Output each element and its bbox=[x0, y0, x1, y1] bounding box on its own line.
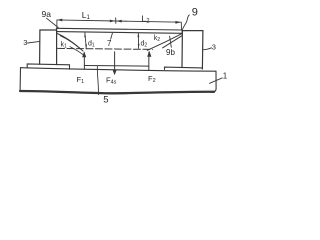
leader 9a bbox=[47, 18, 59, 27]
dimension arrow L1 right bbox=[110, 20, 115, 23]
force arrow F4s (centre, downward) bbox=[113, 52, 117, 75]
beam 7 dashed centre line bbox=[58, 48, 153, 49]
svg-text:F2: F2 bbox=[148, 74, 156, 84]
svg-text:7: 7 bbox=[107, 39, 112, 48]
svg-text:1: 1 bbox=[223, 72, 228, 81]
right foot plate bbox=[165, 67, 203, 69]
load pad top edge between F1 and F2 bbox=[84, 65, 148, 68]
beam kink k1 diagonal a bbox=[56, 33, 80, 49]
svg-text:5: 5 bbox=[103, 95, 108, 106]
svg-text:3: 3 bbox=[23, 38, 27, 47]
beam kink k1 diagonal c bbox=[70, 47, 84, 55]
leader 3 left bbox=[28, 41, 40, 43]
leader 5 bbox=[97, 66, 98, 94]
beam kink k2 diagonal b bbox=[163, 36, 183, 48]
svg-text:L2: L2 bbox=[142, 14, 151, 25]
left foot plate bbox=[27, 64, 69, 69]
svg-text:k2: k2 bbox=[154, 35, 161, 43]
dimension arrow L2 right bbox=[175, 21, 180, 24]
right post 3 bbox=[182, 31, 203, 69]
leader 9 bbox=[182, 15, 189, 30]
svg-text:k1: k1 bbox=[61, 42, 68, 50]
leader 1 bbox=[210, 78, 223, 83]
dimension arrow L left bbox=[57, 19, 62, 22]
base plate 1 bbox=[20, 68, 216, 94]
dimension line L1/L2 bbox=[57, 18, 182, 30]
svg-text:9a: 9a bbox=[42, 9, 52, 19]
svg-text:d1: d1 bbox=[88, 41, 95, 49]
dimension arrow L2 left bbox=[116, 20, 121, 23]
left post 3 bbox=[40, 30, 57, 65]
force arrow F1 bbox=[82, 51, 86, 69]
svg-text:3: 3 bbox=[212, 43, 216, 52]
force arrow F2 bbox=[147, 51, 151, 71]
dimension d1 bbox=[84, 33, 87, 49]
leader 9b bbox=[170, 36, 172, 47]
leader 7 bbox=[111, 33, 113, 39]
leader 3 right bbox=[203, 48, 212, 50]
svg-text:L1: L1 bbox=[82, 10, 91, 21]
top bar 9 bbox=[57, 28, 183, 33]
svg-text:9: 9 bbox=[192, 7, 198, 19]
beam kink k1 diagonal b bbox=[60, 36, 83, 51]
svg-text:F4s: F4s bbox=[106, 76, 117, 86]
svg-text:F1: F1 bbox=[77, 75, 85, 85]
dimension d2 bbox=[138, 33, 140, 48]
beam kink k2 diagonal a bbox=[147, 34, 182, 51]
svg-text:d2: d2 bbox=[141, 41, 148, 49]
svg-text:9b: 9b bbox=[166, 48, 175, 57]
